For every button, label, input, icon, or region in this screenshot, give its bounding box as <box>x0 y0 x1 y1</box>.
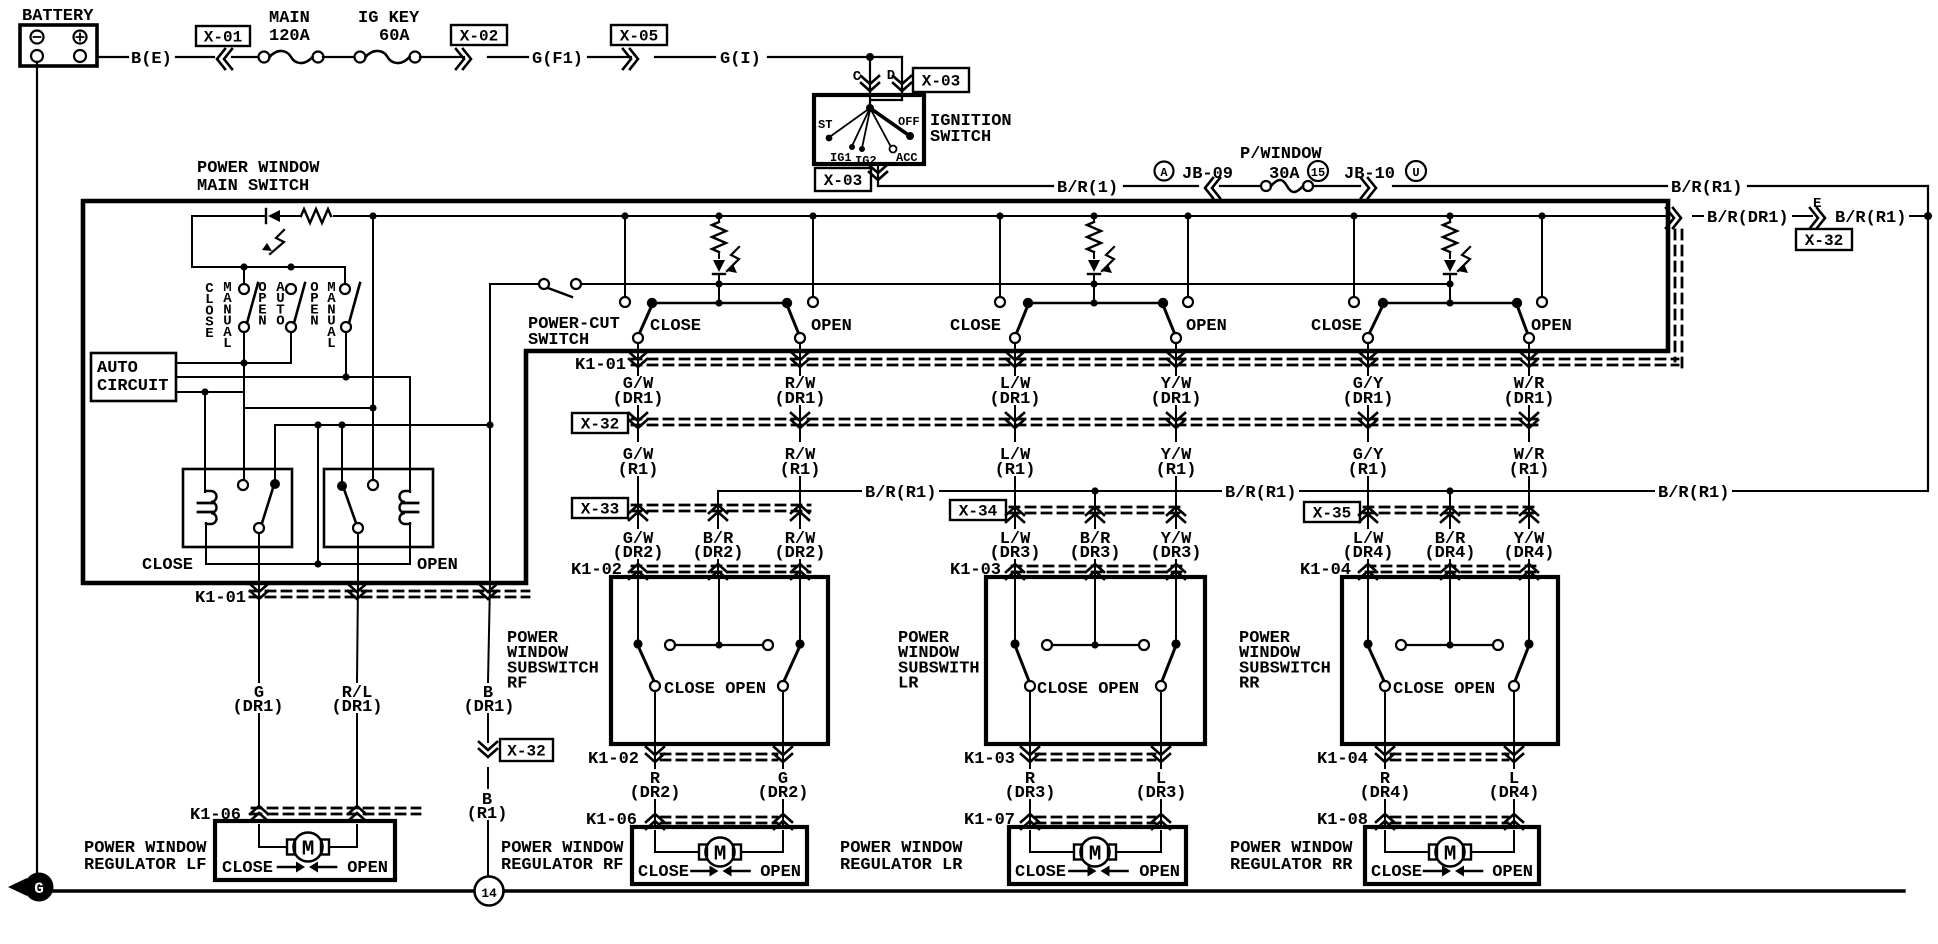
svg-text:REGULATOR LR: REGULATOR LR <box>840 856 963 875</box>
wire H425 <box>275 424 490 426</box>
switch AUTO OPEN <box>286 284 296 294</box>
switch MANUAL CLOSE <box>243 267 245 284</box>
svg-text:X-05: X-05 <box>620 28 658 46</box>
svg-text:REGULATOR RF: REGULATOR RF <box>501 856 623 875</box>
wire V342 <box>341 425 343 481</box>
svg-text:B/R(R1): B/R(R1) <box>1835 209 1906 228</box>
svg-text:OPEN: OPEN <box>310 280 318 330</box>
indicator resistor <box>712 222 726 252</box>
wire B(E) <box>97 56 128 58</box>
bus B/R(DR1) <box>192 215 264 217</box>
wire B(DR1) <box>488 583 490 682</box>
wire B/R(R1) to right edge <box>1393 185 1667 187</box>
ground line <box>53 889 474 892</box>
svg-text:JB-09: JB-09 <box>1182 165 1233 184</box>
svg-text:OPEN: OPEN <box>258 280 266 330</box>
svg-text:CLOSE OPEN: CLOSE OPEN <box>1037 680 1139 699</box>
svg-text:OPEN: OPEN <box>1139 863 1180 882</box>
wire supply drop left <box>1353 216 1355 297</box>
wire G(DR1) <box>258 583 260 682</box>
svg-text:SWITCH: SWITCH <box>528 331 589 350</box>
svg-text:B/R(R1): B/R(R1) <box>865 484 936 503</box>
svg-text:REGULATOR LF: REGULATOR LF <box>84 856 206 875</box>
switch MANUAL OPEN <box>340 284 350 294</box>
connector X-02 <box>451 25 507 45</box>
svg-text:K1-02: K1-02 <box>588 750 639 769</box>
svg-text:K1-06: K1-06 <box>586 811 637 830</box>
power window subswitch R <box>1342 577 1558 744</box>
svg-text:G: G <box>34 880 44 898</box>
close contact lever <box>1017 305 1028 332</box>
svg-text:X-02: X-02 <box>460 28 498 46</box>
svg-text:X-35: X-35 <box>1313 505 1351 523</box>
wire supply drop left <box>624 216 626 297</box>
connector X-05 <box>611 25 667 45</box>
junction <box>866 53 874 61</box>
wire ignition pin C <box>869 57 871 108</box>
power window regulator RR <box>1365 827 1539 884</box>
bus switch common <box>581 283 1450 285</box>
wire supply drop left <box>999 216 1001 297</box>
junction box JB-09 (A) <box>1155 162 1174 181</box>
svg-text:ACC: ACC <box>896 151 918 165</box>
svg-text:OPEN: OPEN <box>760 863 801 882</box>
svg-text:CLOSE: CLOSE <box>1015 863 1066 882</box>
connector exit arrows to X-32 E <box>1673 208 1681 228</box>
power window main switch box <box>83 201 1668 583</box>
svg-text:MANUAL: MANUAL <box>223 280 232 352</box>
wire open out <box>799 343 801 375</box>
wire V275 <box>274 425 276 479</box>
connector X-32 on B wire <box>479 749 497 757</box>
junction circle 15 <box>1308 161 1328 181</box>
junction circle U <box>1406 161 1426 181</box>
svg-text:B/R(R1): B/R(R1) <box>1225 484 1296 503</box>
indicator LED <box>1093 252 1095 258</box>
svg-text:X-32: X-32 <box>581 416 619 434</box>
svg-text:K1-08: K1-08 <box>1317 811 1368 830</box>
svg-text:MAIN SWITCH: MAIN SWITCH <box>197 177 309 196</box>
svg-text:G(F1): G(F1) <box>532 50 583 69</box>
wire to ignition switch pin D <box>870 56 902 58</box>
wire open out <box>1528 343 1530 375</box>
switch pivot bar <box>652 302 787 304</box>
wire H408 <box>244 407 373 409</box>
power-cut switch <box>490 283 539 285</box>
wire <box>420 56 464 58</box>
illumination LED D1 <box>268 210 280 222</box>
svg-text:CIRCUIT: CIRCUIT <box>97 377 168 396</box>
connector X-33 <box>572 498 628 518</box>
open contact lever <box>1163 305 1174 332</box>
wire manual close riser <box>243 332 245 480</box>
close contact lever <box>1370 305 1383 332</box>
relay OPEN <box>324 469 433 547</box>
wire close out <box>1367 343 1369 375</box>
wire close out <box>1014 343 1016 375</box>
svg-text:X-03: X-03 <box>824 172 862 190</box>
connector X-03 arrow (lower) <box>869 172 887 180</box>
wire R(DR4) <box>1384 744 1386 768</box>
connector X-32 row <box>572 413 628 433</box>
svg-text:X-34: X-34 <box>959 503 998 521</box>
wire switch bus <box>191 216 193 267</box>
resistor R1 <box>301 209 331 223</box>
ignition switch <box>814 95 924 164</box>
open contact lever <box>787 305 798 332</box>
svg-text:B(E): B(E) <box>131 50 172 69</box>
wire auto circuit line1 <box>176 362 291 364</box>
wire led to bus <box>1449 274 1451 301</box>
auto circuit module <box>91 353 176 401</box>
wire <box>323 56 355 58</box>
svg-text:M: M <box>1444 844 1457 867</box>
svg-text:OPEN: OPEN <box>1531 317 1572 336</box>
svg-text:B/R(R1): B/R(R1) <box>1658 484 1729 503</box>
svg-text:OPEN: OPEN <box>1186 317 1227 336</box>
indicator LED <box>1449 252 1451 258</box>
wire V410 open coil riser <box>409 377 411 492</box>
wire supply drop right <box>1541 216 1543 297</box>
wire supply drop right <box>1187 216 1189 297</box>
switch pivot bar <box>1383 302 1517 304</box>
wire <box>1313 185 1360 187</box>
wire auto circuit line3 <box>176 391 244 393</box>
wire G(I) <box>655 56 715 58</box>
svg-text:CLOSE: CLOSE <box>638 863 689 882</box>
close contact lever <box>640 305 652 332</box>
connector E arrow <box>1817 208 1825 228</box>
wire led to bus <box>718 274 720 301</box>
power window regulator LR <box>1009 827 1186 884</box>
svg-text:B/R(DR1): B/R(DR1) <box>1707 209 1789 228</box>
wire L(DR4) <box>1513 744 1515 768</box>
svg-text:14: 14 <box>481 886 497 901</box>
wire R(DR3) <box>1029 744 1031 768</box>
wire relay close output <box>258 533 260 583</box>
indicator resistor <box>1443 222 1457 252</box>
wire G(DR2) <box>782 744 784 768</box>
svg-text:BATTERY: BATTERY <box>22 7 94 26</box>
svg-text:CLOSE: CLOSE <box>1371 863 1422 882</box>
wire close coil riser <box>204 392 206 492</box>
power window subswitch F <box>611 577 828 744</box>
svg-text:OPEN: OPEN <box>1492 863 1533 882</box>
power window regulator LF <box>215 821 395 880</box>
svg-text:K1-03: K1-03 <box>964 750 1015 769</box>
wire Y/W(DR1) <box>1175 350 1177 375</box>
svg-text:CLOSE OPEN: CLOSE OPEN <box>664 680 766 699</box>
switch pivot bar <box>1028 302 1163 304</box>
svg-text:CLOSE OPEN: CLOSE OPEN <box>1393 680 1495 699</box>
connector X-32 label (top right) <box>1796 229 1852 250</box>
svg-text:X-32: X-32 <box>507 743 545 761</box>
svg-text:ST: ST <box>818 118 832 132</box>
svg-text:CLOSE: CLOSE <box>205 281 214 342</box>
wire W/R(DR1) <box>1528 350 1530 375</box>
svg-text:IG KEY: IG KEY <box>358 9 420 28</box>
wire B/R(1) <box>878 185 1053 187</box>
svg-text:X-33: X-33 <box>581 501 619 519</box>
svg-text:RF: RF <box>507 675 527 694</box>
wire B(R1) <box>487 768 489 788</box>
svg-text:CLOSE: CLOSE <box>950 317 1001 336</box>
svg-text:LR: LR <box>898 675 919 694</box>
wire relay open output <box>357 533 359 583</box>
wire R/W(DR1) <box>799 350 801 375</box>
svg-text:MANUAL: MANUAL <box>327 280 336 352</box>
connector K1-01 side dashes <box>1674 230 1677 361</box>
wire open out <box>1175 343 1177 375</box>
wire G/Y(DR1) <box>1367 350 1369 375</box>
indicator LED <box>718 252 720 258</box>
battery <box>20 25 97 66</box>
power window regulator RF <box>632 827 807 884</box>
svg-text:IG1: IG1 <box>830 151 852 165</box>
wire coil common V318 <box>317 425 319 564</box>
wire G(F1) <box>488 56 528 58</box>
wire B/R(DR4) drop <box>1449 491 1451 528</box>
wire right edge drop <box>1927 186 1929 491</box>
connector X-03 arrows <box>861 83 879 91</box>
svg-text:CLOSE: CLOSE <box>1311 317 1362 336</box>
svg-text:120A: 120A <box>269 27 311 46</box>
svg-text:CLOSE: CLOSE <box>650 317 701 336</box>
svg-text:OFF: OFF <box>898 115 920 129</box>
wire <box>1220 185 1262 187</box>
wire <box>232 56 259 58</box>
svg-text:K1-01: K1-01 <box>575 356 626 375</box>
svg-text:B/R(1): B/R(1) <box>1057 179 1118 198</box>
svg-text:U: U <box>1412 166 1419 180</box>
svg-text:E: E <box>1813 196 1821 212</box>
svg-text:K1-01: K1-01 <box>195 589 246 608</box>
connector X-03 (upper) label <box>913 68 969 92</box>
wire coil common <box>205 523 207 564</box>
svg-text:CLOSE: CLOSE <box>222 859 273 878</box>
svg-text:OPEN: OPEN <box>347 859 388 878</box>
svg-text:OPEN: OPEN <box>811 317 852 336</box>
wire B DR1 inside box <box>489 284 491 583</box>
svg-text:X-32: X-32 <box>1805 232 1843 250</box>
svg-text:60A: 60A <box>379 27 410 46</box>
svg-text:M: M <box>714 844 727 867</box>
ground symbol G <box>25 873 54 902</box>
wire G/W(DR1) <box>637 350 639 375</box>
svg-text:M: M <box>302 839 315 862</box>
open contact lever <box>1517 305 1527 332</box>
connector X-01 <box>196 26 250 46</box>
svg-text:M: M <box>1089 844 1102 867</box>
wire battery negative to ground <box>36 62 38 873</box>
svg-text:RR: RR <box>1239 675 1260 694</box>
svg-text:P/WINDOW: P/WINDOW <box>1240 145 1322 164</box>
svg-text:MAIN: MAIN <box>269 9 310 28</box>
svg-text:K1-04: K1-04 <box>1317 750 1368 769</box>
wire B/R(DR3) drop <box>1094 491 1096 528</box>
wire supply drop right <box>812 216 814 297</box>
wire led to bus <box>1093 274 1095 301</box>
wire B/R(R1) lower <box>718 490 861 492</box>
svg-text:REGULATOR RR: REGULATOR RR <box>1230 856 1353 875</box>
svg-text:G(I): G(I) <box>720 50 761 69</box>
indicator resistor <box>1087 222 1101 252</box>
wire B/R(DR2) drop <box>717 491 719 528</box>
svg-text:POWER WINDOW: POWER WINDOW <box>197 159 320 178</box>
wire R(DR2) <box>654 744 656 768</box>
svg-text:CLOSE: CLOSE <box>142 556 193 575</box>
connector X-34 <box>950 500 1006 520</box>
svg-text:15: 15 <box>1311 166 1325 180</box>
svg-text:AUTO: AUTO <box>276 280 285 330</box>
wire R/L(DR1) <box>357 583 358 682</box>
wire L/W(DR1) <box>1014 350 1016 375</box>
connector X-35 <box>1304 502 1360 522</box>
wire V373 from bus <box>372 216 374 480</box>
junction circle 14 <box>475 877 504 906</box>
wire L(DR3) <box>1160 744 1162 768</box>
relay CLOSE <box>183 469 292 547</box>
svg-text:IG2: IG2 <box>855 154 877 168</box>
wire auto circuit line2 <box>176 376 410 378</box>
wire ignition output <box>877 164 879 186</box>
svg-text:A: A <box>1160 166 1168 180</box>
connector X-03 (lower) label <box>815 168 871 191</box>
svg-text:SWITCH: SWITCH <box>930 128 991 147</box>
svg-text:OPEN: OPEN <box>417 556 458 575</box>
svg-text:X-01: X-01 <box>204 29 242 47</box>
svg-text:AUTO: AUTO <box>97 359 138 378</box>
power window subswitch R <box>986 577 1205 744</box>
svg-text:B/R(R1): B/R(R1) <box>1671 179 1742 198</box>
wire close out <box>637 343 639 375</box>
svg-text:X-03: X-03 <box>922 73 960 91</box>
